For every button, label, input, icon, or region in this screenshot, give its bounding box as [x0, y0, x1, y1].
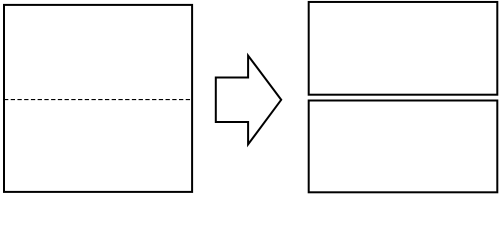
bottom result box	[309, 101, 498, 193]
block arrow	[216, 56, 281, 145]
top result box	[309, 2, 498, 95]
left source box	[4, 5, 192, 192]
dashed split line	[4, 99, 191, 101]
